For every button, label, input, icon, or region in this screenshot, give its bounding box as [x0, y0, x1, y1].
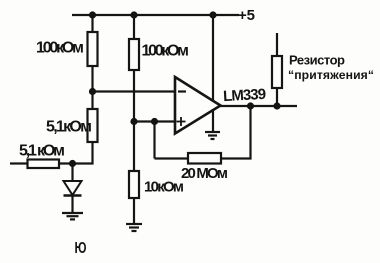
wire left 100k bottom lead [91, 66, 93, 92]
svg-text:LM339: LM339 [223, 86, 267, 105]
diode body [64, 181, 82, 195]
wire 5,1k vertical top lead [91, 92, 93, 110]
resistor 10kOm body [129, 171, 139, 198]
wire feedback vertical from plus wire [153, 122, 155, 159]
ground under 10k [126, 224, 142, 231]
node dot plus divider junction [130, 118, 137, 125]
wire minus input [93, 90, 176, 92]
svg-text:10кОм: 10кОм [144, 179, 184, 196]
ground under op-amp [205, 132, 220, 139]
wire feedback horizontal left segment [155, 157, 189, 159]
resistor 5,1kOm horizontal body [28, 160, 60, 169]
wire 10k bottom lead [133, 198, 135, 224]
wire right 100k bottom lead [133, 70, 135, 122]
diode cathode stem [71, 196, 73, 214]
node dot output-feedback [247, 102, 254, 109]
node dot feedback junction [151, 118, 158, 125]
wire input line left stub [10, 162, 28, 164]
node dot output-pullup [273, 102, 280, 109]
node dot rail-power [209, 11, 216, 18]
op-amp plus pin mark [177, 117, 186, 126]
svg-text:5,1 кОм: 5,1 кОм [19, 143, 65, 160]
node dot rail-left100k [89, 11, 96, 18]
resistor 20 MOm body [188, 153, 221, 164]
wire pull-up top stub [276, 33, 278, 56]
diode cathode bar [64, 194, 82, 196]
resistor 5,1kOm vertical body [88, 109, 98, 142]
op-amp minus pin mark [178, 90, 186, 92]
wire 5,1k vertical bottom lead to input line [59, 142, 93, 164]
svg-text:100кОм: 100кОм [36, 40, 84, 57]
resistor 100kOm right body [129, 39, 139, 70]
svg-text:5,1кОм: 5,1кОм [46, 119, 92, 136]
svg-text:+5: +5 [238, 7, 255, 24]
wire V+ power drop to op-amp [212, 15, 214, 101]
svg-text:“притяжения“: “притяжения“ [288, 68, 374, 82]
wire 10k top lead [133, 122, 135, 172]
node dot diode junction [69, 160, 76, 167]
wire pull-up bottom lead [276, 88, 278, 106]
ground under diode [62, 213, 83, 219]
wire left 100k top lead [91, 15, 93, 32]
svg-text:20 МОм: 20 МОм [181, 165, 228, 182]
wire output [220, 105, 297, 107]
node dot rail-right100k [130, 11, 137, 18]
op-amp LM339 triangle [175, 77, 221, 134]
wire right 100k top lead [133, 15, 135, 39]
diode anode stem [71, 164, 73, 182]
svg-text:Ю: Ю [75, 240, 87, 257]
resistor pull-up body [272, 56, 282, 88]
wire op-amp ground stem [212, 109, 214, 132]
svg-text:Резистор: Резистор [289, 53, 345, 68]
wire feedback horizontal right segment and riser to output [221, 106, 251, 159]
svg-text:100кОм: 100кОм [142, 43, 190, 60]
wire plus input [134, 120, 175, 122]
node dot minus input junction [89, 88, 96, 95]
resistor 100kOm left body [88, 32, 98, 66]
wire +5 top rail [72, 14, 239, 16]
